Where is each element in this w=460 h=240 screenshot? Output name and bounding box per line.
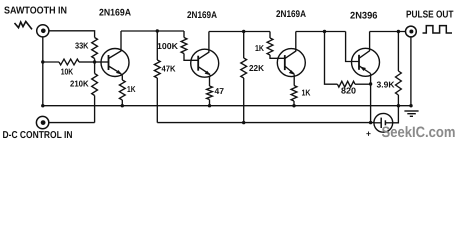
resistor 33K	[92, 38, 98, 59]
node stage3 top junction	[323, 30, 326, 33]
svg-text:1K: 1K	[127, 84, 136, 94]
resistor 1K (Q1 emitter)	[119, 80, 125, 100]
wire 1K to rail	[293, 101, 295, 106]
node Q4 emitter lower rail	[369, 121, 372, 124]
wire 1K to rail	[121, 100, 123, 106]
node 3.9K bottom rail	[397, 104, 400, 107]
wire Q4 emitter to lower rail (crosses ground rail)	[370, 84, 372, 123]
wire output junction to 3.9K	[397, 32, 399, 72]
resistor 47 (Q2 emitter)	[207, 86, 213, 100]
resistor 1K (Q3 emitter)	[291, 86, 297, 102]
resistor 100K	[181, 38, 187, 54]
svg-text:PULSE OUT: PULSE OUT	[406, 9, 454, 20]
node A (10K left end)	[41, 60, 44, 63]
output jack J3 (pulse out terminal)	[406, 26, 417, 37]
node stage2 top junction	[242, 30, 245, 33]
svg-text:10K: 10K	[61, 67, 74, 77]
resistor 820	[337, 81, 355, 87]
node rail right end / ground	[409, 104, 412, 107]
wire J1 down to ground rail	[42, 37, 44, 106]
svg-text:2N396: 2N396	[350, 10, 378, 21]
wire stage3 rail to Q4 base	[346, 32, 359, 62]
svg-text:+: +	[366, 129, 371, 139]
wire 820 to Q4 emitter node	[355, 83, 371, 85]
Q1 emitter with arrow	[109, 66, 122, 74]
battery B1 (circle with cell)	[374, 113, 393, 132]
wire Q4 emitter down	[370, 74, 372, 85]
svg-text:22K: 22K	[249, 63, 265, 73]
sawtooth waveform symbol	[15, 22, 33, 30]
resistor 210K	[92, 74, 98, 96]
svg-text:820: 820	[341, 86, 356, 96]
ground	[404, 111, 418, 116]
Q2 emitter with arrow	[198, 67, 210, 75]
input jack J1 (sawtooth in terminal)	[37, 25, 49, 37]
wire J3 sleeve down to rail	[410, 37, 412, 106]
resistor 3.9K	[396, 71, 402, 95]
wire J1 to 33K	[49, 31, 95, 38]
wire 100K to Q2 base	[184, 54, 198, 61]
resistor 10K	[59, 59, 79, 65]
wire J2 to 210K bottom	[49, 122, 95, 124]
wire stage2 collector rail	[209, 31, 270, 33]
node Q2 emitter rail	[208, 104, 211, 107]
svg-text:SAWTOOTH IN: SAWTOOTH IN	[4, 5, 67, 16]
transistor Q4 2N396	[352, 48, 380, 76]
wire Q1 base	[95, 61, 109, 63]
svg-text:1K: 1K	[255, 43, 265, 53]
node Q1 emitter rail	[121, 104, 124, 107]
Q2 collector	[198, 32, 209, 60]
svg-text:SeekIC.com: SeekIC.com	[382, 124, 456, 141]
wire 210K to D-C control line (crosses rail)	[94, 96, 96, 123]
svg-text:47: 47	[215, 86, 225, 96]
svg-text:2N169A: 2N169A	[187, 10, 217, 21]
transistor Q1 2N169A	[101, 49, 129, 77]
wire top to 100K	[183, 31, 185, 38]
wire 1K to Q3 base	[270, 55, 285, 58]
ground rail wire	[43, 105, 411, 107]
svg-text:47K: 47K	[162, 64, 177, 74]
node Q4 emitter / 820 junction	[369, 82, 372, 85]
resistor 22K	[241, 58, 247, 78]
wire 33K to node B1	[94, 59, 96, 63]
wire 47 to rail	[209, 100, 211, 106]
transistor Q3 2N169A	[277, 49, 305, 77]
wire stage3 collector rail	[296, 31, 346, 33]
Q4 collector	[359, 32, 370, 59]
svg-text:3.9K: 3.9K	[377, 80, 396, 90]
svg-text:210K: 210K	[70, 78, 89, 88]
wire node B1 to 210K	[94, 62, 96, 74]
transistor Q2 2N169A	[191, 49, 219, 77]
Q4 emitter with arrow (PNP)	[359, 66, 371, 74]
wire 10K to node B1	[79, 61, 95, 63]
svg-text:2N169A: 2N169A	[276, 9, 306, 20]
node Q3 emitter rail	[292, 104, 295, 107]
node 22K lower rail	[242, 121, 245, 124]
Q3 collector	[285, 32, 296, 59]
wire Q2 emitter to 47	[209, 75, 212, 86]
svg-text:2N169A: 2N169A	[99, 8, 131, 19]
wire 47K to lower rail (crosses ground rail)	[156, 78, 158, 123]
wire battery to ground rail riser	[393, 106, 399, 123]
resistor 1K (coupling)	[267, 38, 273, 55]
node B1	[93, 60, 96, 63]
lower rail wire (47K corner to battery)	[157, 122, 374, 124]
svg-text:100K: 100K	[157, 41, 179, 51]
wire top to 1K coupling	[269, 32, 271, 39]
wire Q1 emitter to 1K	[121, 74, 124, 80]
wire top to 22K	[243, 32, 245, 59]
node rail left end	[41, 104, 44, 107]
wire top junction down to 820	[325, 32, 338, 85]
svg-text:D-C CONTROL IN: D-C CONTROL IN	[3, 130, 73, 141]
input jack J2 (D-C control terminal)	[36, 116, 48, 128]
wire to 10K	[43, 61, 59, 63]
wire 3.9K to rail	[397, 95, 399, 106]
Q1 collector	[109, 31, 122, 59]
node output junction	[397, 30, 400, 33]
resistor 47K	[154, 60, 160, 78]
svg-text:1K: 1K	[302, 87, 312, 97]
svg-text:33K: 33K	[75, 41, 89, 51]
wire 22K to lower rail (crosses ground rail)	[243, 78, 245, 123]
pulse waveform symbol	[423, 26, 453, 33]
wire stage1 collector rail	[121, 30, 184, 32]
node stage1 top junction	[156, 29, 159, 32]
wire Q3 emitter to 1K	[293, 74, 295, 85]
wire stage4 collector rail	[370, 31, 406, 33]
Q3 emitter with arrow	[285, 66, 294, 74]
wire top to 47K	[156, 31, 158, 60]
